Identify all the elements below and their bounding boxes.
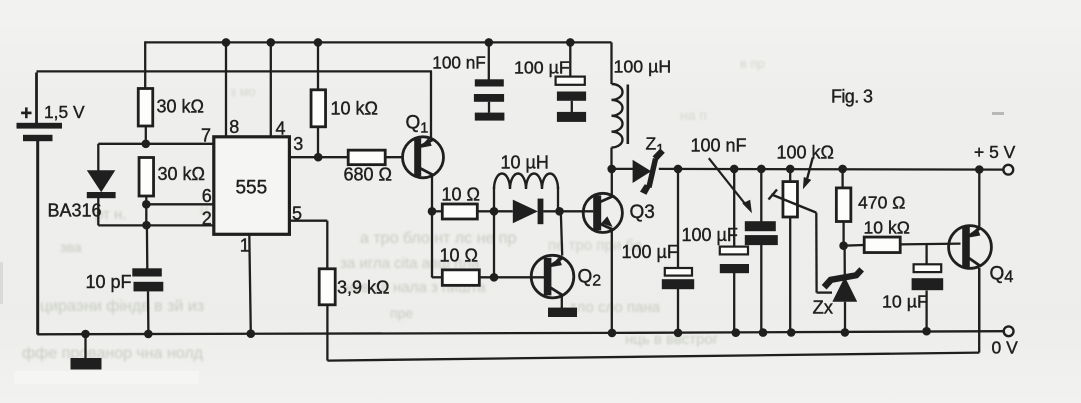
- svg-text:ффе прованор чна нолд: ффе прованор чна нолд: [22, 345, 204, 362]
- svg-text:470 Ω: 470 Ω: [858, 193, 905, 213]
- svg-text:10 µH: 10 µH: [501, 153, 549, 173]
- svg-text:1: 1: [240, 236, 250, 256]
- svg-text:3,9 kΩ: 3,9 kΩ: [337, 278, 389, 298]
- svg-text:100 nF: 100 nF: [432, 53, 486, 73]
- svg-text:30 kΩ: 30 kΩ: [157, 97, 204, 117]
- svg-text:4: 4: [275, 118, 285, 138]
- svg-text:пре: пре: [390, 305, 413, 321]
- svg-text:на п: на п: [680, 107, 707, 123]
- svg-text:7: 7: [201, 126, 211, 146]
- svg-text:100 nF: 100 nF: [691, 136, 747, 156]
- svg-text:5: 5: [292, 204, 302, 224]
- svg-text:2: 2: [202, 209, 212, 229]
- svg-text:100 kΩ: 100 kΩ: [777, 143, 835, 163]
- svg-text:10 µF: 10 µF: [882, 292, 928, 312]
- svg-text:Zx: Zx: [813, 297, 834, 318]
- svg-text:Q3: Q3: [630, 202, 655, 223]
- svg-text:100 µH: 100 µH: [614, 56, 672, 76]
- svg-text:555: 555: [235, 177, 267, 198]
- svg-text:10 Ω: 10 Ω: [440, 246, 478, 266]
- svg-text:30 kΩ: 30 kΩ: [158, 164, 205, 184]
- svg-text:BA316: BA316: [48, 201, 102, 221]
- svg-text:зва: зва: [60, 239, 82, 255]
- svg-text:3: 3: [293, 134, 303, 154]
- svg-text:100 µF: 100 µF: [622, 242, 678, 262]
- svg-text:0 V: 0 V: [992, 338, 1019, 358]
- svg-text:+ 5 V: + 5 V: [974, 142, 1016, 162]
- svg-text:1,5 V: 1,5 V: [44, 102, 85, 122]
- svg-text:10 pF: 10 pF: [86, 272, 132, 292]
- svg-text:цираэни фіндв в зй из: цираэни фіндв в зй из: [40, 298, 204, 315]
- svg-text:Fig. 3: Fig. 3: [831, 87, 873, 107]
- svg-text:10 kΩ: 10 kΩ: [331, 99, 378, 119]
- svg-text:+: +: [21, 103, 33, 125]
- svg-text:10 kΩ: 10 kΩ: [864, 218, 910, 238]
- svg-text:100 µF: 100 µF: [682, 225, 738, 245]
- svg-text:6: 6: [202, 186, 212, 206]
- svg-text:10 Ω: 10 Ω: [442, 185, 480, 205]
- svg-text:680 Ω: 680 Ω: [344, 165, 393, 185]
- svg-text:в пр: в пр: [740, 56, 765, 71]
- svg-text:з мо: з мо: [230, 84, 256, 99]
- svg-text:8: 8: [229, 117, 239, 137]
- svg-text:100 µF: 100 µF: [514, 58, 570, 78]
- svg-text:тло сло пана: тло сло пана: [570, 299, 661, 316]
